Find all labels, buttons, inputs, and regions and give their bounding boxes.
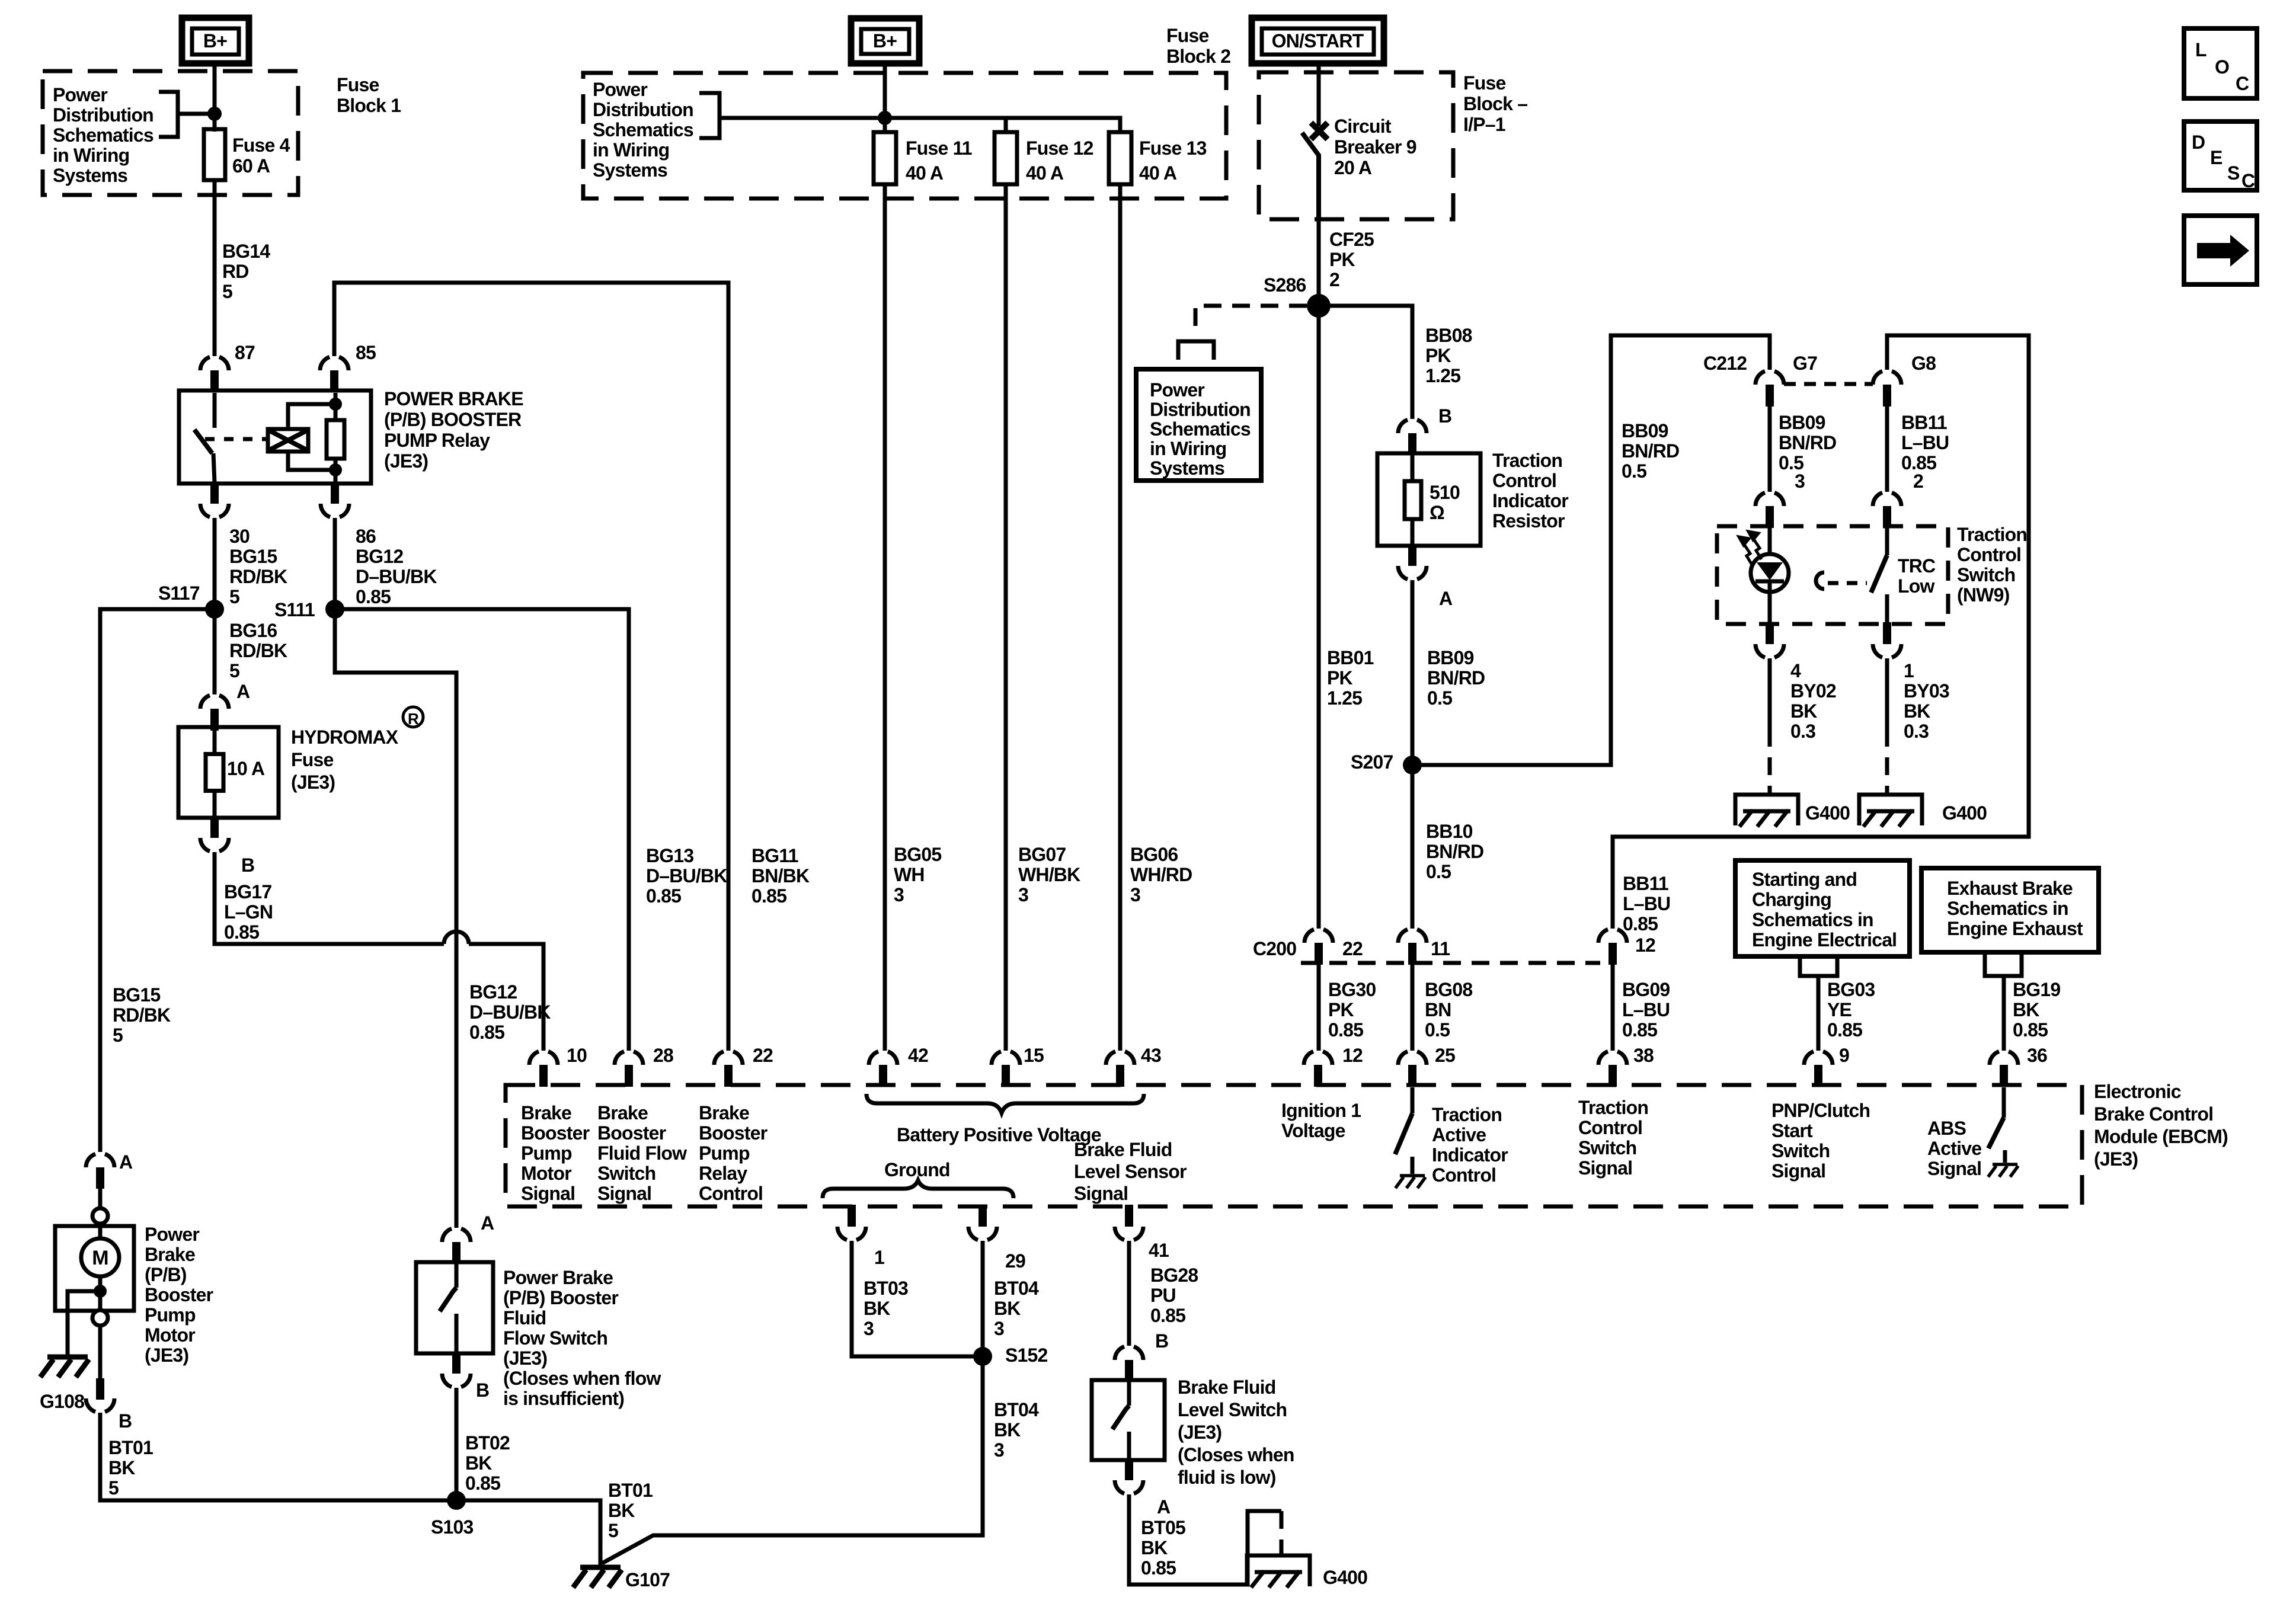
inline connector C200 dashed line (1301, 961, 1600, 965)
ground G108 (40, 1357, 89, 1377)
wire BB09 BN/RD 0.5 (G7 to TRC switch pin 3) (1768, 406, 1772, 492)
svg-text:B: B (1155, 1330, 1168, 1352)
EBCM pin 12 connector (1304, 1051, 1332, 1087)
EBCM ABS active driver switch (1988, 1087, 2005, 1163)
svg-text:A: A (119, 1151, 133, 1173)
ground G400 (left) (1735, 795, 1798, 827)
svg-text:S111: S111 (274, 599, 315, 620)
svg-text:Battery Positive Voltage: Battery Positive Voltage (897, 1124, 1101, 1145)
pin 86 connector of relay (321, 482, 349, 517)
motor M: Power Brake (P/B) Booster Pump Motor (JE3) (55, 1208, 134, 1326)
EBCM pin 22 connector (714, 1051, 743, 1087)
svg-text:85: 85 (356, 342, 376, 363)
legend box LOC (2184, 28, 2257, 98)
wire BG17 L-GN 0.85 (hydromax to EBCM pin 10) (215, 852, 444, 944)
svg-text:C: C (2241, 170, 2255, 191)
power symbol B+ (left) (182, 18, 249, 63)
note box Starting and Charging Schematics in Engine Electrical (1735, 860, 1910, 956)
power symbol B+ (middle) (851, 18, 919, 63)
fuse F13 40A (1109, 118, 1131, 199)
circuit breaker CB9 (1302, 123, 1328, 219)
wire BG03 YE 0.85 (to EBCM pin 9) (1817, 976, 1821, 1051)
dashed lead to G400 (right) (1885, 729, 1889, 795)
wire BG16 RD/BK 5 (S117 down to hydromax fuse) (213, 609, 217, 694)
relay actuator dashed link (205, 437, 268, 441)
relay coil loop (288, 404, 335, 470)
svg-text:B: B (241, 854, 254, 876)
wire BG30 PK 0.85 (C200 to EBCM pin 12) (1317, 964, 1321, 1051)
TRC pin 1 connector (1873, 622, 1901, 658)
svg-text:3: 3 (1795, 470, 1805, 492)
svg-text:B: B (1438, 405, 1451, 427)
level switch SW: Brake Fluid Level Switch (JE3) (1092, 1380, 1165, 1460)
fuse F4 60A (204, 114, 225, 196)
svg-text:A: A (481, 1212, 494, 1234)
svg-text:10 A: 10 A (227, 758, 265, 779)
wire BG15 RD/BK 5 (pin 30 to S117) (213, 518, 217, 601)
relay coil element (327, 393, 344, 482)
TRC switch contact (1871, 526, 1887, 624)
svg-text:S286: S286 (1264, 274, 1306, 296)
power symbol ON/START (1252, 18, 1384, 63)
svg-text:C: C (2236, 73, 2249, 94)
brace Ground (823, 1180, 1013, 1198)
wire BG19 BK 0.85 (to EBCM pin 36) (2002, 976, 2006, 1051)
svg-text:B+: B+ (203, 30, 227, 52)
TRC switch pin 2 connector (1873, 492, 1901, 528)
EBCM pin 38 connector (1598, 1051, 1627, 1087)
wire BB09 BN/RD 0.5 (S207 to connector C212) (1412, 335, 1770, 765)
EBCM pin 28 connector (615, 1051, 643, 1087)
motor pin B connector (86, 1326, 114, 1412)
svg-text:22: 22 (1342, 938, 1363, 959)
TRC actuator symbol (1816, 572, 1867, 589)
wire ON/START to breaker (1317, 63, 1321, 126)
ground G400 (bottom) (1247, 1555, 1310, 1587)
svg-text:87: 87 (235, 342, 255, 363)
EBCM pin 10 connector (529, 1051, 558, 1087)
flow switch SW: Power Brake (P/B) Booster Fluid Flow Switch (JE3) (416, 1262, 493, 1353)
splice S152 (973, 1347, 992, 1366)
wire BT02 BK 0.85 (flow switch to S103) (455, 1388, 459, 1493)
svg-text:R: R (408, 710, 419, 728)
wire BY03 BK 0.3 (pin 1 to G400) (1885, 658, 1889, 729)
EBCM traction active indicator driver switch (1395, 1087, 1412, 1174)
connector C212/G7 (1755, 371, 1784, 406)
dashed branch from S286 to power distribution note (1195, 306, 1307, 333)
svg-text:42: 42 (908, 1045, 928, 1066)
wire from S111 down to fluid flow switch (BG12) (335, 609, 456, 1228)
svg-text:G108: G108 (40, 1391, 84, 1412)
dashed lead to G400 (1280, 1511, 1284, 1555)
bracket above note box (1178, 341, 1214, 360)
svg-text:G7: G7 (1793, 353, 1817, 374)
wire from S111 right to EBCM pin 28 (BG13) (335, 609, 629, 1051)
svg-text:TRCLow: TRCLow (1898, 555, 1936, 597)
junction on feed (878, 111, 892, 125)
svg-text:S152: S152 (1005, 1345, 1048, 1366)
pin 85 connector of relay (320, 357, 348, 392)
svg-text:S: S (2227, 162, 2240, 184)
EBCM pin 1 connector (837, 1205, 866, 1240)
resistor R: Traction Control Indicator Resistor 510 ohm (1377, 453, 1480, 546)
wire BB10 BN/RD 0.5 (S207 to C200 pin 11) (1411, 765, 1415, 929)
svg-text:O: O (2215, 56, 2229, 78)
brace Battery Positive Voltage (866, 1094, 1144, 1113)
splice S117 (205, 600, 224, 619)
connector C200 pin 11 (1398, 929, 1427, 965)
dashed connector pair line G7-G8 (1784, 382, 1873, 386)
svg-text:22: 22 (753, 1045, 773, 1066)
wire CF25 PK 2 (breaker to S286) (1317, 219, 1321, 298)
wire BG14 RD 5 (fuse 4 to relay pin 87) (213, 196, 217, 356)
wire BT03 BK 3 (pin 1 to S152) (852, 1241, 975, 1356)
hydromax fuse pin A connector (200, 695, 229, 731)
splice S286 (1307, 294, 1331, 318)
ground G107 (573, 1567, 622, 1587)
EBCM internal ground (ABS active) (1988, 1164, 2018, 1177)
svg-text:G8: G8 (1911, 353, 1936, 374)
wire BB08 PK 1.25 (S286 to resistor) (1319, 306, 1412, 419)
fuse block 1 dashed box (43, 71, 298, 195)
svg-text:25: 25 (1435, 1045, 1455, 1066)
wire BG06 WH/RD 3 (fuse 13 to EBCM pin 43) (1118, 199, 1123, 1051)
wire BT05 BK 0.85 (level switch to G400) (1129, 1494, 1281, 1585)
relay switch contact (194, 393, 215, 482)
HYDROMAX fuse 10A box (178, 727, 279, 818)
svg-text:A: A (1157, 1496, 1171, 1518)
svg-text:41: 41 (1149, 1240, 1169, 1261)
legend box DESC (2184, 121, 2257, 191)
svg-text:12: 12 (1635, 934, 1655, 956)
Traction Control Switch (NW9) dashed box (1717, 526, 1948, 624)
splice S111 (325, 600, 344, 619)
svg-text:S117: S117 (158, 582, 200, 604)
svg-text:A: A (236, 681, 250, 702)
svg-text:G400: G400 (1805, 802, 1850, 824)
EBCM pin 43 connector (1106, 1051, 1134, 1087)
svg-text:B: B (119, 1410, 132, 1432)
EBCM pin 9 connector (1804, 1051, 1833, 1087)
wire BG12 D-BU/BK 0.85 (pin 86 to S111) (333, 518, 337, 601)
svg-text:Exhaust BrakeSchematics inEngi: Exhaust BrakeSchematics inEngine Exhaust (1947, 878, 2083, 939)
pin 87 connector of relay (200, 357, 229, 392)
TRC pin 4 connector (1755, 622, 1784, 658)
wire BB11 L-BU 0.85 (riser to G8) (1613, 335, 2029, 929)
hydromax fuse pin B connector (200, 816, 229, 852)
svg-text:9: 9 (1839, 1045, 1849, 1066)
svg-text:B+: B+ (873, 30, 897, 52)
EBCM pin 25 connector (1398, 1051, 1427, 1087)
wire BT01 BK 5 (motor to S103) (100, 1413, 449, 1500)
svg-text:G400: G400 (1942, 802, 1987, 824)
junction on B+ wire (207, 107, 222, 121)
EBCM pin 41 connector (1115, 1205, 1143, 1240)
note box Power Distribution Schematics in Wiring Systems (middle) (1136, 369, 1261, 481)
fuse F12 40A (994, 118, 1017, 199)
wire relay pin 85 to EBCM pin 22 (BG11) (334, 283, 728, 1051)
svg-text:D: D (2192, 132, 2205, 153)
level switch pin A connector (1115, 1458, 1143, 1494)
svg-text:28: 28 (653, 1045, 673, 1066)
relay K: POWER BRAKE (P/B) BOOSTER PUMP Relay (JE3) box (179, 391, 371, 484)
level switch pin B connector (1115, 1346, 1143, 1382)
splice S207 (1403, 756, 1422, 774)
wire B+ to feed (883, 63, 887, 118)
svg-text:L: L (2195, 39, 2207, 60)
svg-text:M: M (92, 1247, 108, 1269)
bracket under exhaust box (1985, 952, 2022, 976)
flow switch pin A connector (442, 1228, 471, 1264)
motor ground branch to G108 (68, 1285, 107, 1355)
wire BT01 BK 5 (S103 to ground G107) (456, 1500, 600, 1565)
registered trademark mark (403, 707, 423, 728)
wire from B+ to Fuse 4 (213, 63, 217, 132)
EBCM internal ground (traction active) (1395, 1176, 1425, 1188)
svg-text:15: 15 (1024, 1045, 1044, 1066)
svg-text:11: 11 (1431, 938, 1450, 959)
wire BT04 BK 3 (S152 to ground run) (602, 1364, 983, 1563)
TRC switch pin 3 connector (1755, 492, 1784, 528)
wire BG08 BN 0.5 (C200 to EBCM pin 25) (1411, 964, 1415, 1051)
svg-text:C200: C200 (1253, 938, 1296, 959)
Electronic Brake Control Module (EBCM) dashed box (506, 1085, 2082, 1206)
connector C200 pin (1598, 929, 1627, 965)
connector G8 (1873, 371, 1901, 406)
connector C200 pin 22 (1304, 929, 1333, 965)
resistor pin B connector (1398, 420, 1427, 455)
wire BG09 L-BU 0.85 (C200 to EBCM pin 38) (1611, 964, 1615, 1051)
svg-text:G400: G400 (1323, 1567, 1367, 1588)
bracket from note to B+ wire (159, 92, 215, 137)
wire BB11 L-BU 0.85 (G8 to TRC switch pin 2) (1885, 406, 1889, 492)
EBCM pin 36 connector (1990, 1051, 2018, 1087)
svg-text:29: 29 (1005, 1250, 1025, 1272)
wire BY02 BK 0.3 (pin 4 to G400) (1768, 658, 1772, 729)
wire BG07 WH/BK 3 (fuse 12 to EBCM pin 15) (1004, 199, 1008, 1051)
resistor pin A connector (1398, 544, 1427, 580)
bracket under starting box (1800, 956, 1837, 976)
svg-text:10: 10 (567, 1045, 587, 1066)
pump motor pin A connector (86, 1154, 114, 1208)
bracket from note to feed wire (699, 93, 885, 138)
svg-text:C212: C212 (1703, 353, 1747, 374)
wire BB09 BN/RD 0.5 (resistor to S207) (1411, 580, 1415, 757)
wire BG05 WH 3 (fuse 11 to EBCM pin 42) (883, 199, 887, 1051)
svg-text:G107: G107 (625, 1569, 670, 1590)
svg-text:12: 12 (1342, 1045, 1363, 1066)
svg-text:A: A (1439, 588, 1453, 609)
fuse block 2 dashed box (583, 73, 1226, 199)
svg-text:B: B (476, 1379, 489, 1401)
dashed lead to G400 (left) (1768, 729, 1772, 795)
TRC indicator LED (1751, 526, 1789, 624)
note box Exhaust Brake Schematics in Engine Exhaust (1921, 868, 2099, 952)
wire BG28 PU 0.85 (pin 41 to level switch) (1127, 1241, 1131, 1346)
wire from S117 left and down to pump motor (BG15) (100, 609, 215, 1152)
feed bus wire (885, 118, 1120, 133)
pin 30 connector of relay (200, 482, 229, 517)
svg-text:Ground: Ground (884, 1159, 950, 1180)
splice S103 (447, 1491, 466, 1510)
ground G400 (right) (1859, 795, 1922, 827)
wire BB01 PK 1.25 (S286 to C200 pin 22) (1317, 306, 1321, 929)
svg-text:43: 43 (1141, 1045, 1161, 1066)
svg-text:TractionControlIndicatorResist: TractionControlIndicatorResistor (1492, 450, 1568, 532)
LED arrows (1739, 532, 1761, 565)
svg-text:S103: S103 (431, 1516, 474, 1538)
EBCM pin 15 connector (992, 1051, 1020, 1087)
wire BT04 BK 3 (pin 29 to S152) (981, 1241, 985, 1349)
svg-text:ON/START: ON/START (1272, 30, 1364, 52)
svg-text:1: 1 (874, 1247, 884, 1268)
legend box arrow (2184, 216, 2257, 284)
flow switch pin B connector (442, 1352, 471, 1387)
svg-text:38: 38 (1633, 1045, 1654, 1066)
fuse F11 40A (874, 118, 896, 199)
svg-text:S207: S207 (1351, 751, 1393, 773)
svg-text:36: 36 (2027, 1045, 2047, 1066)
svg-text:2: 2 (1913, 470, 1923, 492)
relay actuator X box (268, 429, 308, 452)
fuse block I/P-1 dashed box (1259, 72, 1453, 219)
EBCM pin 42 connector (869, 1051, 897, 1087)
EBCM pin 29 connector (968, 1205, 997, 1240)
svg-text:E: E (2210, 147, 2223, 168)
